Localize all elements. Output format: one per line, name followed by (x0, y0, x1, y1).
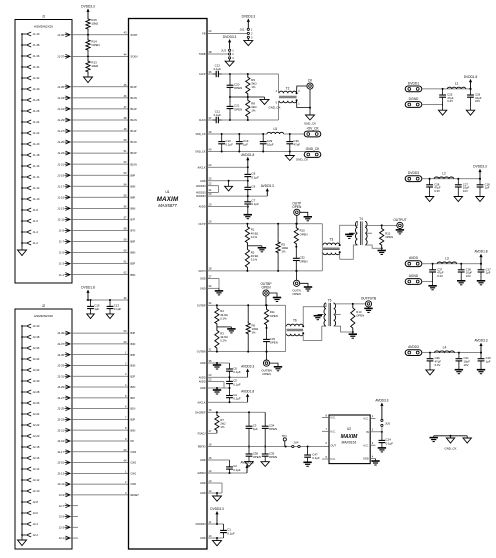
jumper JU4 (292, 445, 294, 447)
wire CLK mid rail (229, 91, 231, 98)
J1 pin J1-14 input arrow (22, 176, 26, 178)
svg-text:J1-33: J1-33 (57, 96, 64, 100)
GND13/12 ground (216, 493, 218, 496)
U1 pin GND27 wire (207, 278, 219, 280)
svg-text:0.1%: 0.1% (220, 316, 227, 320)
U1 pin GND13 wire (207, 482, 222, 484)
C18 gnd drop wire (479, 190, 481, 194)
svg-text:OPEN: OPEN (385, 235, 393, 239)
inductor L5 (267, 132, 284, 134)
J1 pin J1-6 input arrow (22, 220, 26, 222)
power flag AVDD1.8 (low) (247, 397, 249, 403)
power flag DVDD3.3 (479, 172, 481, 179)
svg-text:T2: T2 (286, 87, 290, 91)
svg-text:J1-18: J1-18 (33, 153, 40, 157)
transformer T4 (356, 221, 358, 245)
svg-text:0.1µF: 0.1µF (312, 456, 320, 460)
J2 pin J2-12 input arrow (22, 479, 26, 481)
J2 left pin bus wire (21, 326, 23, 538)
CLK mid ground GND_CK (264, 97, 266, 99)
svg-text:J1-34: J1-34 (33, 65, 40, 69)
U1 pin GND25 wire (207, 180, 248, 182)
svg-text:AVCLK: AVCLK (197, 166, 205, 169)
svg-text:MAX6161: MAX6161 (342, 441, 357, 445)
svg-text:OPEN: OPEN (292, 292, 301, 296)
connector DVDD1 (405, 86, 422, 92)
resistor R13 (351, 304, 355, 332)
capacitor C4 (229, 388, 231, 393)
wire J1-3 to U1 (70, 263, 129, 265)
J2 pin J2-2 input arrow (22, 534, 26, 536)
U1 pin GND35 wire (207, 362, 230, 364)
svg-text:L4: L4 (443, 345, 447, 349)
svg-text:AVDD33: AVDD33 (196, 195, 206, 198)
U1 pin OUTP wire (207, 223, 322, 225)
capacitor C6 (229, 363, 231, 366)
svg-text:J2-12: J2-12 (33, 478, 40, 482)
resistor R13 (86, 59, 90, 74)
U2 pin GND wire (370, 458, 375, 460)
power rail wire (422, 178, 480, 180)
svg-text:B5P: B5P (131, 263, 136, 266)
svg-text:OPEN: OPEN (269, 427, 277, 431)
J2 pin J2-14 input arrow (22, 468, 26, 470)
U1 pin AVDD23 wire (207, 376, 248, 378)
OUTPUTB ground (368, 307, 370, 308)
svg-text:J2-32: J2-32 (33, 368, 40, 372)
svg-text:0.1%: 0.1% (251, 258, 258, 262)
svg-text:B1N: B1N (131, 408, 136, 411)
U1 pin CLKP wire (207, 73, 213, 75)
U1 pin VDD_CK wire (207, 133, 267, 135)
svg-text:1µF: 1µF (253, 427, 258, 431)
resistor R8 (246, 97, 250, 120)
svg-text:GND: GND (200, 287, 206, 290)
wire J1-15 to U1 (70, 196, 129, 198)
connector OUTN (open) (296, 271, 298, 280)
capacitor C19 (238, 134, 240, 139)
svg-text:FB: FB (202, 33, 206, 36)
svg-text:J2: J2 (42, 304, 46, 308)
capacitor C36b (307, 447, 309, 453)
power flag AVDD1.8 (480, 257, 482, 264)
J2 pin J2-26 input arrow (22, 402, 26, 404)
svg-text:J2-4: J2-4 (33, 522, 39, 526)
svg-text:U2: U2 (347, 427, 351, 431)
svg-text:J1-10: J1-10 (33, 197, 40, 201)
svg-text:J1-3: J1-3 (59, 262, 65, 266)
U1 pin OUTN wire (207, 270, 322, 272)
wire C11 to node (222, 119, 230, 121)
svg-text:AVDD: AVDD (199, 206, 206, 209)
svg-text:0.1µF: 0.1µF (233, 370, 241, 374)
divider ground (87, 74, 89, 77)
U1 pin FB wire (207, 32, 248, 33)
capacitor C3 (248, 412, 250, 423)
wire T4 secondary return (365, 245, 382, 248)
svg-text:0.1µF: 0.1µF (233, 382, 241, 386)
svg-text:DVDD3.3: DVDD3.3 (223, 35, 237, 39)
U1 pin AVDD3 wire (207, 472, 247, 474)
resistor R3 (215, 327, 219, 352)
svg-text:CW3: CW3 (131, 451, 137, 454)
U1 pin AVDD33c wire (207, 195, 267, 197)
capacitor C30 (289, 134, 291, 139)
power rail wire (422, 88, 471, 90)
U2 GND ground (375, 459, 377, 461)
J1 pin J1-28 input arrow (22, 99, 26, 101)
U2 pin NC1 stub (370, 417, 375, 419)
svg-text:J2-9: J2-9 (59, 493, 65, 497)
U1 pin REFIO wire (207, 446, 329, 448)
power rail wire (422, 352, 481, 354)
svg-text:J1: J1 (42, 15, 46, 19)
svg-text:J2-33: J2-33 (57, 364, 64, 368)
C14 ground (381, 446, 383, 448)
resistor R6 (247, 304, 249, 306)
svg-text:AVDD: AVDD (199, 376, 206, 379)
svg-text:J2-5: J2-5 (59, 515, 65, 519)
svg-text:10kΩ: 10kΩ (91, 64, 99, 68)
GND36 ground (216, 388, 218, 390)
svg-text:AVCLK: AVCLK (197, 401, 205, 404)
ground tie GND_CK triangle (450, 436, 452, 438)
svg-text:J2-39: J2-39 (57, 331, 64, 335)
wire J1-17 to U1 (70, 185, 129, 187)
svg-text:N.C.: N.C. (331, 429, 336, 433)
svg-text:J1-2: J1-2 (33, 241, 39, 245)
connector DGND (405, 102, 422, 108)
svg-text:47µF: 47µF (294, 143, 301, 147)
ground tie right triangle (466, 436, 468, 438)
wire CLK bottom rail (230, 119, 279, 121)
svg-text:10V: 10V (466, 274, 471, 278)
T4 centre tap stub (365, 232, 372, 234)
wire output loop edge (285, 305, 287, 351)
wire J2-27 to U1 (70, 397, 129, 399)
svg-text:0.1µF: 0.1µF (225, 143, 233, 147)
U1 pin AVDD33b wire (207, 191, 219, 193)
svg-text:J2-34: J2-34 (33, 357, 40, 361)
svg-text:B2P: B2P (131, 375, 136, 378)
svg-text:AVDD3.3: AVDD3.3 (241, 365, 254, 369)
svg-text:0.1%: 0.1% (251, 235, 258, 239)
svg-text:REFIO: REFIO (198, 446, 206, 449)
svg-text:FSADJ: FSADJ (198, 432, 207, 435)
svg-text:J2-2: J2-2 (33, 533, 39, 537)
svg-text:B2N: B2N (131, 386, 136, 389)
U1 pin DACREF wire (207, 411, 265, 413)
jumper JU1 (247, 28, 249, 30)
C30 ground (460, 279, 462, 281)
svg-text:B4P: B4P (131, 332, 136, 335)
wire J2-13 to U1 (70, 472, 129, 474)
svg-text:J2-11: J2-11 (57, 482, 64, 486)
svg-text:J2-25: J2-25 (57, 407, 64, 411)
power flag DVDD1.8 (470, 82, 472, 89)
svg-text:GND_CK: GND_CK (444, 447, 456, 451)
U1 pin AVCLK18 wire (207, 401, 248, 403)
svg-text:+5V_CK: +5V_CK (306, 126, 319, 130)
wire J2-29 to U1 (70, 386, 129, 388)
IC U2 MAX6161 box (329, 415, 370, 464)
wire J2-37 to U1 (70, 343, 129, 345)
svg-text:J1-27: J1-27 (57, 129, 64, 133)
svg-text:0.1µF: 0.1µF (233, 468, 241, 472)
svg-text:OPEN: OPEN (356, 314, 364, 318)
svg-text:B10P: B10P (131, 152, 137, 155)
wire T6 to T5 top (303, 303, 326, 326)
power rail wire (422, 263, 481, 265)
C16 ground (90, 312, 92, 314)
svg-text:L5: L5 (274, 127, 278, 131)
ground GND_CK below C30 (289, 152, 291, 156)
svg-text:1%: 1% (251, 85, 256, 89)
wire L5 to +5V_CK (284, 133, 304, 135)
svg-text:0.1µF: 0.1µF (214, 67, 222, 71)
svg-text:OPEN: OPEN (234, 86, 242, 90)
connector AVDD3 (405, 350, 422, 356)
svg-text:SCKP: SCKP (131, 34, 138, 37)
svg-text:1µF: 1µF (485, 186, 490, 190)
svg-text:AVDD3.3: AVDD3.3 (375, 399, 388, 403)
J2 pin J2-10 input arrow (22, 490, 26, 492)
wire J1-1 to U1 (70, 274, 129, 276)
svg-text:GND_CK: GND_CK (296, 158, 308, 162)
C26 ground (470, 108, 472, 110)
J2 pin J2-20 input arrow (22, 435, 26, 437)
svg-text:DACREF: DACREF (195, 411, 206, 414)
wire T2 sec top to CK (297, 86, 307, 93)
svg-text:J2-28: J2-28 (33, 390, 40, 394)
svg-text:J1-22: J1-22 (33, 131, 40, 135)
svg-text:GND_CK: GND_CK (306, 147, 321, 151)
svg-text:DVDD3.3: DVDD3.3 (473, 165, 487, 169)
svg-text:10µF: 10µF (267, 143, 274, 147)
C17 ground (480, 279, 482, 281)
svg-text:J1-21: J1-21 (57, 162, 64, 166)
capacitor C9 (247, 181, 249, 185)
resistor R7 (215, 412, 219, 433)
svg-text:DVDD33: DVDD33 (196, 523, 206, 526)
svg-text:J2-17: J2-17 (57, 450, 64, 454)
svg-text:T4: T4 (359, 217, 363, 221)
svg-text:6.3V: 6.3V (437, 274, 443, 278)
R13 ground (352, 332, 354, 334)
svg-text:OPEN: OPEN (234, 107, 242, 111)
svg-text:J2-20: J2-20 (33, 434, 40, 438)
svg-text:OUTPUTB: OUTPUTB (361, 296, 376, 300)
svg-text:OUTBN: OUTBN (197, 351, 206, 354)
U1 pin DVDD33 wire (207, 523, 224, 525)
svg-text:10kΩ: 10kΩ (91, 22, 99, 26)
wire J2-15 to U1 (70, 462, 129, 464)
svg-text:JU5: JU5 (385, 422, 390, 426)
svg-text:OUTBP: OUTBP (197, 304, 206, 307)
C26 gnd drop wire (470, 100, 472, 108)
svg-text:AVDD1.8: AVDD1.8 (474, 250, 487, 254)
svg-text:B10N: B10N (131, 163, 137, 166)
C28 ground (429, 194, 431, 196)
capacitor C7 (247, 193, 249, 199)
svg-text:GND: GND (200, 387, 206, 390)
svg-text:J2-14: J2-14 (33, 467, 40, 471)
svg-text:B0P: B0P (131, 418, 136, 421)
J1 pin J1-32 input arrow (22, 77, 26, 79)
svg-text:N.C.: N.C. (364, 443, 369, 447)
svg-text:MAX5877: MAX5877 (158, 203, 177, 208)
ground GND_CK at CK (309, 114, 311, 116)
jumper JU3 (229, 49, 231, 51)
wire T4 to OUTPUT (365, 224, 397, 226)
svg-text:J2-31: J2-31 (57, 374, 64, 378)
svg-text:GND: GND (200, 278, 206, 281)
svg-text:B0N: B0N (131, 429, 136, 432)
C25 gnd drop wire (442, 100, 444, 108)
svg-text:B6P: B6P (131, 241, 136, 244)
svg-text:OPEN: OPEN (261, 286, 271, 290)
wire J2-35 to U1 (70, 354, 129, 356)
J1 pin J1-10 input arrow (22, 198, 26, 200)
connector +5V_CK (304, 131, 321, 137)
R1/R2 midpoint ground (247, 245, 262, 247)
J2 pin J2-8 input arrow (22, 501, 26, 503)
J1 pin J1-12 input arrow (22, 187, 26, 189)
capacitor C27 (457, 179, 459, 182)
wire to T2 primary bottom (278, 101, 280, 120)
U1 pin OUTBP wire (207, 304, 286, 306)
power flag AVDD1.8 (clk) (247, 160, 249, 167)
svg-text:AVDD: AVDD (409, 256, 419, 260)
J1 pin J1-4 input arrow (22, 231, 26, 233)
svg-text:1µF: 1µF (94, 307, 99, 311)
JU1 ground (247, 38, 249, 40)
svg-text:AVDD1.8: AVDD1.8 (241, 390, 254, 394)
power flag AVDD3.3 (480, 346, 482, 353)
svg-text:0.1µF: 0.1µF (114, 307, 122, 311)
C27 gnd drop wire (457, 190, 459, 194)
svg-text:OUTN: OUTN (198, 270, 205, 273)
C30 gnd drop wire (460, 275, 462, 279)
svg-text:B7P: B7P (131, 219, 136, 222)
GND35 ground (216, 363, 218, 365)
svg-text:SCKN: SCKN (131, 56, 138, 59)
JU3 ground (229, 59, 231, 61)
resistor R1 (246, 223, 248, 225)
capacitor C18 (479, 179, 481, 182)
svg-text:J1-1: J1-1 (59, 273, 65, 277)
wire J2-33 to U1 (70, 364, 129, 366)
svg-text:J2-1: J2-1 (59, 536, 65, 540)
svg-text:J2-40: J2-40 (33, 324, 40, 328)
svg-text:B1P: B1P (131, 397, 136, 400)
svg-text:0.1µF: 0.1µF (233, 396, 241, 400)
svg-text:0.1µF: 0.1µF (386, 441, 394, 445)
svg-text:J1-26: J1-26 (33, 109, 40, 113)
svg-text:J2-16: J2-16 (33, 456, 40, 460)
capacitor C32 (295, 247, 297, 256)
svg-text:B9P: B9P (131, 174, 136, 177)
wire J1-9 to U1 (70, 229, 129, 231)
svg-text:J2-23: J2-23 (57, 417, 64, 421)
R12 ground (381, 248, 383, 250)
svg-text:RESET: RESET (131, 494, 140, 497)
wire J1-25 to U1 (70, 141, 129, 143)
wire J1-31 to U1 (70, 108, 129, 110)
svg-text:OPEN: OPEN (270, 340, 278, 344)
capacitor C11 (213, 119, 216, 121)
svg-text:B9N: B9N (131, 185, 136, 188)
U1 pin OUTBN wire (207, 351, 286, 353)
svg-text:GND: GND (200, 180, 206, 183)
wire J1-11 to U1 (70, 218, 129, 220)
svg-text:JU1: JU1 (240, 28, 245, 32)
C18 ground (479, 194, 481, 196)
svg-text:OPEN: OPEN (269, 455, 277, 459)
C31 ground (458, 368, 460, 370)
svg-text:J2-18: J2-18 (33, 445, 40, 449)
capacitor C33 (266, 328, 268, 337)
svg-text:1%: 1% (251, 109, 256, 113)
C35 ground (264, 459, 266, 461)
GND10 ground (216, 538, 218, 541)
svg-text:C9: C9 (252, 185, 256, 189)
J1 bus ground (21, 247, 23, 250)
svg-text:OPEN: OPEN (300, 232, 308, 236)
capacitor C15 (480, 353, 482, 356)
U1 pin GND33 wire (207, 287, 219, 289)
svg-text:10V: 10V (475, 99, 480, 103)
svg-text:B7N: B7N (131, 230, 136, 233)
svg-text:AVDD3.3: AVDD3.3 (240, 461, 253, 465)
J1 pin J1-38 input arrow (22, 44, 26, 46)
inductor L1 (447, 87, 466, 89)
svg-text:OPEN: OPEN (253, 455, 261, 459)
wire J2-25 to U1 (70, 408, 129, 410)
J2 bus ground (21, 538, 23, 540)
C38 ground (248, 459, 250, 461)
connector AGND (405, 279, 422, 285)
wire J1-7 to U1 (70, 241, 129, 243)
svg-text:10V: 10V (464, 363, 469, 367)
svg-text:J1-36: J1-36 (33, 54, 40, 58)
C36 gnd drop wire (429, 364, 431, 368)
IC U1 MAX5895 box (129, 19, 208, 550)
svg-text:1%: 1% (220, 425, 225, 429)
svg-text:J2-35: J2-35 (57, 353, 64, 357)
connector OUTBP (open) (263, 290, 269, 296)
J1 pin J1-36 input arrow (22, 55, 26, 57)
C37 gnd drop wire (432, 275, 434, 284)
inductor L3 (437, 262, 457, 264)
power flag DVDD3.3 (divider) (87, 12, 89, 17)
svg-text:1µF: 1µF (486, 271, 491, 275)
wire J1-13 to U1 (70, 207, 129, 209)
J1 pin J1-2 input arrow (22, 242, 26, 244)
wire J1-29 to U1 (70, 119, 129, 121)
wire C12 to node (222, 73, 230, 75)
svg-text:1µF: 1µF (243, 143, 248, 147)
power flag AVDD3.3 (U2) (381, 406, 383, 419)
J2 pin J2-40 input arrow (22, 325, 26, 327)
J2 pin J2-28 input arrow (22, 391, 26, 393)
svg-text:J1-23: J1-23 (57, 151, 64, 155)
svg-text:J1-32: J1-32 (33, 76, 40, 80)
svg-text:J1-30: J1-30 (33, 87, 40, 91)
capacitor C5 (229, 377, 231, 378)
svg-text:DVDD3.3: DVDD3.3 (242, 15, 256, 19)
svg-text:T3: T3 (329, 237, 333, 241)
